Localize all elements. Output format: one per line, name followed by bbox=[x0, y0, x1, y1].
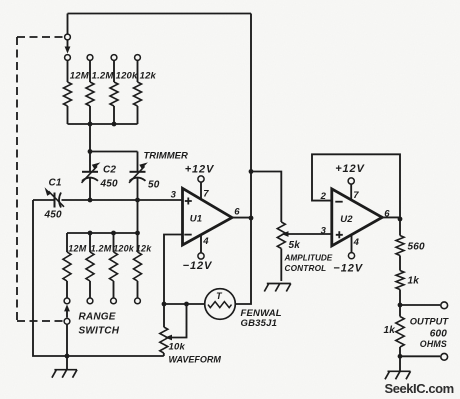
svg-text:5k: 5k bbox=[289, 240, 301, 251]
svg-text:1k: 1k bbox=[384, 325, 396, 336]
wire resistor to contact bbox=[89, 281, 91, 298]
wire bank1 bottom bus bbox=[68, 123, 138, 125]
svg-text:GB35J1: GB35J1 bbox=[241, 318, 278, 329]
junction right rail at U1 output bbox=[249, 216, 254, 221]
op-amp U1 bbox=[183, 188, 233, 245]
U2 plus input sign bbox=[336, 231, 343, 238]
wire contact to resistor bbox=[113, 61, 115, 82]
wire C1 left drop to ground bus bbox=[33, 200, 164, 356]
switch S1a contact 1 bbox=[65, 55, 71, 61]
switch S1a contact 2 bbox=[87, 55, 93, 61]
output terminal upper bbox=[441, 302, 448, 309]
svg-text:6: 6 bbox=[234, 207, 240, 218]
wire resistor to bus bbox=[67, 106, 69, 124]
junction ground bus at switch bbox=[65, 354, 70, 359]
wire contact to resistor bbox=[67, 61, 69, 82]
switch S1b contact 4 bbox=[135, 298, 141, 304]
wire resistor to contact bbox=[113, 281, 115, 298]
resistor R4 12k bbox=[134, 82, 142, 106]
svg-text:120k: 120k bbox=[116, 71, 138, 82]
ground symbol bottom left bbox=[66, 356, 68, 370]
switch S1b contact 1 bbox=[64, 298, 70, 304]
svg-text:120k: 120k bbox=[113, 244, 135, 254]
dashed gang coupling line bbox=[17, 37, 64, 321]
resistor R2 1.2M bbox=[86, 82, 94, 106]
svg-text:+12V: +12V bbox=[185, 164, 215, 176]
potentiometer R9 10k waveform bbox=[163, 304, 165, 327]
svg-text:U2: U2 bbox=[340, 214, 353, 225]
wire 1k to output tap bbox=[399, 290, 401, 306]
wire bus to resistor bbox=[137, 233, 139, 252]
U2 minus input sign bbox=[335, 201, 342, 203]
wire resistor to bus bbox=[89, 106, 91, 124]
resistor R7 120k bbox=[110, 252, 118, 281]
switch S1b contact 2 bbox=[87, 298, 93, 304]
svg-text:560: 560 bbox=[408, 241, 426, 252]
svg-text:10k: 10k bbox=[169, 342, 186, 353]
svg-text:6: 6 bbox=[384, 208, 390, 219]
svg-text:RANGE: RANGE bbox=[79, 311, 116, 322]
svg-text:2: 2 bbox=[320, 191, 327, 202]
svg-text:3: 3 bbox=[171, 189, 177, 200]
junction bank1 bus at 1.2M bbox=[88, 122, 93, 127]
resistor R5 12M bbox=[63, 252, 71, 281]
wiper of 5k pot to U2 pin3 bbox=[288, 233, 332, 235]
ground symbol output bbox=[399, 356, 401, 371]
thermistor RT1 FENWAL GB35J1 bbox=[205, 289, 236, 320]
wire top bus from range switch wiper to right rail bbox=[68, 13, 252, 15]
svg-text:12M.: 12M. bbox=[70, 71, 92, 82]
svg-text:C2: C2 bbox=[103, 164, 116, 175]
svg-text:450: 450 bbox=[44, 210, 63, 221]
wire 560 to 1k bbox=[399, 256, 401, 271]
U2 pin 7 supply bbox=[350, 184, 352, 200]
svg-text:CONTROL: CONTROL bbox=[285, 264, 327, 273]
wire bus to resistor bbox=[66, 233, 68, 252]
svg-text:WAVEFORM: WAVEFORM bbox=[169, 354, 222, 364]
svg-text:1.2M: 1.2M bbox=[91, 244, 112, 254]
resistor R12 1k bbox=[396, 271, 404, 290]
U2 pin 4 supply bbox=[351, 235, 353, 252]
junction output ground node bbox=[398, 354, 403, 359]
capacitor C1 450 variable bbox=[54, 193, 56, 208]
wire bus down to C2 node bbox=[89, 124, 91, 152]
svg-text:U1: U1 bbox=[190, 213, 203, 224]
wire resistor to bus bbox=[137, 106, 139, 124]
U1 pin 4 supply bbox=[200, 236, 202, 253]
svg-text:SWITCH: SWITCH bbox=[79, 325, 120, 336]
wire right rail from top bus down to thermistor line bbox=[235, 14, 251, 305]
junction bank2 bus at 120k bbox=[111, 231, 116, 236]
wire to lower output terminal bbox=[400, 355, 440, 357]
svg-text:1.2M: 1.2M bbox=[92, 71, 115, 82]
wire right rail to 5k pot bbox=[251, 172, 281, 223]
wire bank2 top bus bbox=[67, 232, 138, 234]
resistor R8 12k bbox=[134, 252, 142, 281]
junction right rail to amplitude control bbox=[249, 169, 254, 174]
junction U2 output node bbox=[398, 217, 403, 222]
wiper of 10k pot bbox=[171, 304, 187, 338]
junction main line at trimmer bbox=[135, 198, 140, 203]
resistor R11 560 bbox=[396, 236, 404, 256]
svg-text:AMPLITUDE: AMPLITUDE bbox=[284, 254, 333, 263]
U1 pin 7 supply bbox=[200, 182, 202, 200]
junction bank2 bus at 12k bbox=[135, 231, 140, 236]
wire contact to resistor bbox=[137, 61, 139, 82]
svg-text:12k: 12k bbox=[140, 71, 157, 82]
wire output tap to lower 1k bbox=[399, 305, 401, 317]
wire trimmer column down to bank2 bus bbox=[137, 200, 139, 233]
svg-text:7: 7 bbox=[353, 190, 359, 201]
resistor R1 12M bbox=[64, 82, 72, 106]
op-amp U2 bbox=[332, 189, 382, 246]
junction bank1 bus at 120k bbox=[112, 122, 117, 127]
wire bus to resistor bbox=[89, 233, 91, 252]
wire resistor to bus bbox=[113, 106, 115, 124]
switch S1b contact 3 bbox=[111, 298, 117, 304]
capacitor trimmer 50 bbox=[137, 152, 139, 172]
U1 plus input sign bbox=[185, 198, 192, 205]
svg-text:4: 4 bbox=[353, 237, 360, 248]
svg-text:3: 3 bbox=[321, 226, 327, 237]
range switch S1a wiper contact bbox=[65, 34, 71, 40]
svg-text:12M: 12M bbox=[68, 244, 86, 254]
junction thermistor line at wiper bbox=[184, 302, 189, 307]
wire resistor to contact bbox=[66, 281, 68, 298]
wire from top bus down to switch S1a wiper bbox=[67, 14, 69, 35]
wire U2 output bbox=[382, 216, 400, 218]
resistor R3 120k bbox=[110, 82, 118, 106]
resistor R6 1.2M bbox=[86, 252, 94, 281]
wire contact to resistor bbox=[89, 61, 91, 82]
output terminal lower bbox=[441, 353, 448, 360]
junction node C2 top bbox=[88, 149, 93, 154]
range switch S1b wiper contact bbox=[64, 318, 70, 324]
potentiometer R10 5k amplitude bbox=[277, 222, 285, 249]
wire U1 inverting input to feedback column bbox=[164, 235, 183, 305]
svg-text:SeekIC.com: SeekIC.com bbox=[385, 381, 454, 396]
svg-text:4: 4 bbox=[202, 236, 209, 247]
svg-text:1k: 1k bbox=[408, 275, 420, 286]
wire main node line from C1 to U1 pin3 bbox=[33, 199, 54, 201]
junction main line at C2 bbox=[88, 198, 93, 203]
capacitor C2 450 variable bbox=[89, 152, 91, 172]
wire to upper output terminal bbox=[400, 304, 440, 306]
switch S1a contact 4 bbox=[135, 55, 141, 61]
svg-text:OHMS: OHMS bbox=[420, 339, 447, 349]
svg-text:7: 7 bbox=[203, 189, 209, 200]
ground symbol amplitude control bbox=[267, 283, 291, 285]
junction thermistor line at pot column bbox=[162, 302, 167, 307]
switch S1b wiper arrow bbox=[66, 311, 68, 318]
wire U2 feedback loop box bbox=[312, 154, 400, 219]
svg-text:−12V: −12V bbox=[183, 260, 213, 272]
wire feedback column to thermistor bbox=[164, 303, 205, 305]
wire U2 output to 560 resistor bbox=[399, 219, 401, 236]
wire resistor to contact bbox=[137, 281, 139, 298]
svg-text:50: 50 bbox=[148, 180, 160, 191]
svg-text:−12V: −12V bbox=[333, 262, 363, 274]
svg-text:450: 450 bbox=[100, 179, 119, 190]
svg-text:TRIMMER: TRIMMER bbox=[144, 151, 188, 162]
wire C2 node to trimmer column bbox=[90, 151, 138, 153]
wire lower 1k to ground node bbox=[399, 347, 401, 356]
svg-text:+12V: +12V bbox=[335, 163, 365, 175]
resistor R13 1k bbox=[396, 317, 404, 348]
svg-text:OUTPUT: OUTPUT bbox=[410, 316, 450, 326]
svg-text:C1: C1 bbox=[49, 178, 62, 189]
junction bank2 bus at 1.2M bbox=[88, 231, 93, 236]
wire U1 output to right rail bbox=[232, 217, 251, 219]
wire wiper down to ground bus bbox=[66, 324, 68, 356]
U1 minus input sign bbox=[184, 234, 191, 236]
junction output tap upper bbox=[398, 303, 403, 308]
switch S1a wiper arrow bbox=[67, 40, 69, 47]
switch S1a contact 3 bbox=[111, 55, 117, 61]
wire bus to resistor bbox=[113, 233, 115, 252]
